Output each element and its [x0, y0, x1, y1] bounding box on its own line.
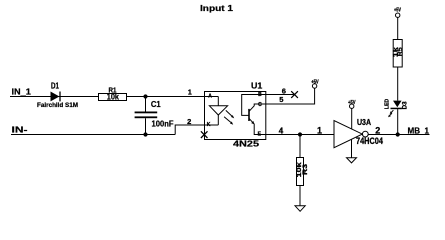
svg-text:B: B — [258, 92, 262, 98]
svg-text:+5V: +5V — [311, 80, 319, 86]
svg-text:5: 5 — [279, 95, 283, 104]
svg-text:R3: R3 — [302, 163, 309, 175]
svg-text:D1: D1 — [51, 82, 59, 91]
svg-text:IN_1: IN_1 — [12, 87, 32, 97]
svg-text:D3: D3 — [402, 101, 408, 110]
svg-text:C: C — [258, 102, 262, 108]
svg-text:74HC04: 74HC04 — [356, 136, 383, 146]
svg-text:LED: LED — [385, 99, 391, 109]
svg-text:100nF: 100nF — [152, 119, 174, 128]
svg-text:K: K — [207, 122, 211, 128]
svg-text:C1: C1 — [151, 100, 161, 109]
svg-text:4N25: 4N25 — [233, 139, 259, 149]
svg-text:2: 2 — [375, 125, 380, 135]
svg-text:A: A — [208, 93, 212, 99]
svg-text:IN-: IN- — [12, 125, 28, 135]
svg-text:4: 4 — [279, 127, 284, 136]
svg-text:+5V: +5V — [348, 100, 356, 106]
svg-text:+5V: +5V — [394, 8, 402, 14]
svg-text:MB_1: MB_1 — [408, 125, 430, 135]
svg-text:10k: 10k — [107, 92, 119, 102]
svg-text:Input 1: Input 1 — [200, 3, 233, 13]
svg-text:U1: U1 — [251, 81, 263, 91]
svg-text:U3A: U3A — [357, 117, 371, 127]
svg-text:1: 1 — [188, 90, 192, 97]
svg-text:2: 2 — [187, 117, 191, 126]
svg-text:R5: R5 — [398, 46, 404, 56]
svg-text:1: 1 — [317, 125, 322, 135]
svg-text:Fairchild S1M: Fairchild S1M — [37, 103, 78, 109]
